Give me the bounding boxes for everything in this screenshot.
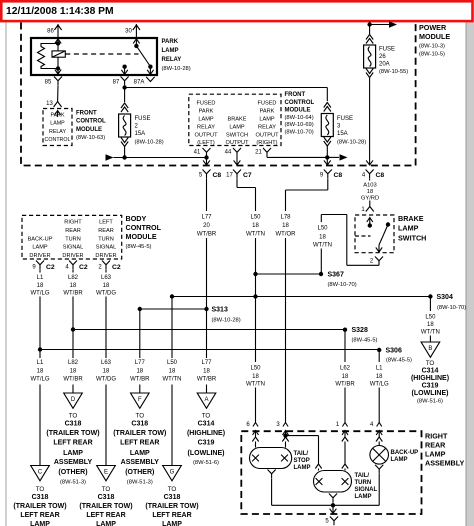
backup lamp ground exit [375, 465, 383, 473]
svg-text:S313: S313 [212, 306, 228, 313]
lamp pin 4 [377, 423, 382, 427]
svg-text:L62: L62 [340, 365, 351, 371]
right rear lamp assembly box [241, 431, 421, 514]
wire A103 from C8 pin4 [369, 178, 371, 180]
svg-text:LEFT REAR: LEFT REAR [120, 439, 159, 446]
svg-text:FUSE: FUSE [337, 116, 353, 122]
ground rail [272, 504, 380, 506]
node J3 pin41 junction [204, 155, 208, 159]
svg-text:15A: 15A [337, 131, 348, 137]
svg-text:C318: C318 [32, 494, 49, 501]
wire L63 down [105, 297, 107, 359]
node ground rail [331, 503, 335, 507]
wire L62 from S328 [344, 330, 346, 362]
svg-text:TURN: TURN [65, 236, 81, 242]
wire L77 down to S313 [206, 238, 208, 309]
lamp pin 5 connector [330, 517, 338, 526]
svg-text:LEFT REAR: LEFT REAR [53, 439, 92, 446]
svg-text:C318: C318 [131, 421, 148, 428]
svg-text:WT/TN: WT/TN [421, 329, 440, 335]
node battery feed [367, 22, 371, 26]
node S306 [377, 348, 381, 352]
svg-text:18: 18 [376, 374, 383, 380]
svg-text:C319: C319 [198, 439, 215, 446]
svg-text:(HIGHLINE): (HIGHLINE) [187, 430, 225, 437]
svg-text:WT/BR: WT/BR [130, 377, 150, 383]
node lamp pin3 junction [283, 433, 287, 437]
svg-text:(8W-51-3): (8W-51-3) [127, 480, 153, 486]
wire A103 to brake switch [369, 201, 371, 207]
svg-text:S304: S304 [437, 294, 453, 301]
svg-text:C7: C7 [243, 172, 252, 179]
svg-text:WT/OR: WT/OR [276, 231, 297, 237]
svg-text:L1: L1 [37, 360, 44, 366]
wire L63 from pin 2 [105, 269, 107, 272]
svg-text:LAMP: LAMP [425, 450, 446, 459]
svg-text:(TRAILER TOW): (TRAILER TOW) [113, 430, 166, 437]
svg-text:85: 85 [45, 80, 52, 86]
pin 86 entry arrow [55, 39, 61, 44]
svg-text:LEFT REAR: LEFT REAR [152, 512, 191, 519]
fuse F3 [324, 103, 331, 108]
svg-text:WT/LG: WT/LG [370, 381, 389, 387]
svg-text:30: 30 [125, 29, 132, 35]
lamp pin 6 [253, 423, 258, 427]
wire fuse2 output [124, 147, 126, 158]
svg-text:BACK-UP: BACK-UP [391, 450, 419, 456]
svg-text:SWITCH: SWITCH [226, 132, 248, 138]
svg-text:S367: S367 [328, 272, 344, 279]
svg-text:SIGNAL: SIGNAL [63, 245, 84, 251]
pin 30 wire top [135, 24, 137, 46]
svg-text:RELAY: RELAY [197, 124, 215, 130]
svg-text:(8W-10-28): (8W-10-28) [212, 317, 241, 323]
svg-text:C318: C318 [65, 421, 82, 428]
svg-text:17: 17 [226, 173, 233, 179]
node S313 [204, 307, 208, 311]
svg-text:(TRAILER TOW): (TRAILER TOW) [79, 503, 132, 510]
svg-text:REAR: REAR [98, 228, 114, 234]
svg-text:LAMP: LAMP [96, 521, 116, 526]
svg-text:D: D [71, 397, 76, 403]
svg-text:REAR: REAR [65, 228, 81, 234]
svg-text:(8W-10-64): (8W-10-64) [285, 115, 314, 121]
svg-text:RELAY: RELAY [258, 124, 276, 130]
svg-text:WT/TN: WT/TN [163, 377, 182, 383]
svg-text:C318: C318 [164, 494, 181, 501]
node S304 [428, 294, 432, 298]
back-up lamp [370, 446, 389, 465]
pin 87 connector [121, 77, 129, 86]
body control module box [22, 215, 122, 259]
wire S304 stub down [429, 297, 431, 312]
svg-text:(LOWLINE): (LOWLINE) [188, 450, 225, 457]
wire pin21 to fuse3 node [266, 156, 268, 159]
pin 13 connector [54, 102, 62, 108]
wire pin3 branch to turn lamp [286, 435, 319, 437]
svg-text:(8W-10-55): (8W-10-55) [379, 69, 408, 75]
svg-text:C314: C314 [422, 367, 439, 374]
svg-text:L77: L77 [201, 214, 212, 220]
svg-text:WT/TN: WT/TN [246, 381, 265, 387]
wire pin44 down [236, 157, 238, 165]
svg-text:WT/TN: WT/TN [313, 242, 332, 248]
node relay coil top [56, 41, 60, 45]
wire to lamp pin 5 [332, 505, 334, 513]
svg-text:18: 18 [252, 374, 259, 380]
svg-text:18: 18 [103, 283, 110, 289]
triangle connector A [197, 393, 216, 408]
svg-text:(TRAILER TOW): (TRAILER TOW) [46, 430, 99, 437]
wire pin4 to backup lamp [378, 442, 380, 446]
wire L62 to lamp pin 1 [344, 388, 346, 423]
svg-text:LAMP: LAMP [259, 116, 275, 122]
svg-text:LAMP: LAMP [398, 224, 419, 233]
svg-text:18: 18 [282, 223, 289, 229]
wire L50 from C7 pin17 [236, 178, 238, 187]
wire to triangle B [429, 336, 431, 343]
svg-text:TO: TO [136, 412, 145, 419]
wire 87 to junction [124, 85, 126, 87]
svg-text:18: 18 [37, 283, 44, 289]
svg-text:18: 18 [103, 368, 110, 374]
svg-text:C8: C8 [213, 172, 222, 179]
svg-text:SIGNAL: SIGNAL [96, 245, 117, 251]
wire L78 from C8 pin9 [327, 178, 329, 190]
svg-text:BRAKE: BRAKE [398, 214, 424, 223]
wire L78 down to lamp pin 3 [285, 238, 287, 423]
svg-text:20: 20 [203, 223, 210, 229]
svg-text:CONTROL: CONTROL [285, 100, 315, 106]
svg-text:TAIL/: TAIL/ [294, 451, 309, 457]
brake switch arm [379, 225, 388, 246]
svg-text:(8W-10-63): (8W-10-63) [76, 135, 105, 141]
node J1 fuse2/fuse3 feed [122, 85, 126, 89]
fuse F2 [121, 103, 128, 108]
svg-text:WT/DG: WT/DG [96, 377, 116, 383]
svg-text:WT/BR: WT/BR [63, 377, 83, 383]
svg-text:LEFT REAR: LEFT REAR [20, 512, 59, 519]
svg-text:LAMP: LAMP [355, 494, 372, 500]
lamp pin 3 [283, 423, 288, 427]
wire L77 branch to triangle F [139, 385, 141, 394]
front control module connector box (park lamp relay control) [43, 109, 72, 146]
wire L77 branch from S313 [139, 309, 141, 358]
wire fuse3 continuation arrow [327, 156, 339, 158]
pin 41 connector [203, 148, 211, 157]
relay coil dashed actuator link [65, 53, 138, 55]
svg-text:PARK: PARK [260, 108, 275, 114]
svg-text:LAMP: LAMP [162, 48, 179, 54]
svg-text:(8W-10-69): (8W-10-69) [285, 122, 314, 128]
node on L50 at S304 line [253, 294, 257, 298]
svg-text:MODULE: MODULE [126, 232, 157, 241]
wire L1 from S306 [378, 350, 380, 362]
svg-text:SWITCH: SWITCH [398, 234, 426, 243]
svg-text:(LOWLINE): (LOWLINE) [412, 390, 449, 397]
wire pin3 to stop lamp [285, 442, 287, 448]
svg-text:FUSE: FUSE [135, 116, 151, 122]
svg-text:15A: 15A [135, 131, 146, 137]
svg-text:18: 18 [427, 322, 434, 328]
svg-text:L1: L1 [37, 275, 44, 281]
svg-text:(8W-51-3): (8W-51-3) [60, 480, 86, 486]
svg-text:(8W-45-5): (8W-45-5) [386, 357, 412, 363]
svg-text:(TRAILER TOW): (TRAILER TOW) [13, 503, 66, 510]
bcm pin 2 connector C2 [102, 261, 110, 270]
svg-text:DRIVER: DRIVER [29, 253, 50, 259]
svg-text:FRONT: FRONT [285, 92, 306, 98]
wire brake L50 to S367 [320, 249, 322, 275]
svg-text:(8W-10-3): (8W-10-3) [419, 44, 445, 50]
wire from S304 row down (L50 to G) [171, 297, 173, 359]
stop lamp ground exit [268, 470, 276, 479]
svg-text:18: 18 [342, 374, 349, 380]
svg-text:(8W-10-28): (8W-10-28) [135, 140, 164, 146]
svg-text:WT/LG: WT/LG [31, 291, 50, 297]
svg-text:S328: S328 [352, 327, 368, 334]
node J4 fuse3 output [325, 155, 329, 159]
triangle connector F [131, 393, 150, 408]
svg-text:LAMP: LAMP [32, 245, 48, 251]
svg-text:L77: L77 [201, 360, 212, 366]
svg-text:C2: C2 [112, 264, 121, 271]
svg-text:C318: C318 [98, 494, 115, 501]
svg-text:WT/TN: WT/TN [246, 231, 265, 237]
node brake switch input [368, 223, 372, 227]
svg-text:TO: TO [69, 412, 78, 419]
wire fuse3 output down [326, 146, 328, 165]
svg-text:C8: C8 [376, 172, 385, 179]
svg-text:LAMP: LAMP [294, 465, 311, 471]
svg-text:WT/BR: WT/BR [63, 291, 83, 297]
svg-text:WT/BR: WT/BR [335, 381, 355, 387]
svg-text:18: 18 [70, 368, 77, 374]
lamp pin 1 [342, 423, 347, 427]
tail/turn signal lamp [314, 471, 352, 493]
wire battery feed arrow [370, 24, 389, 26]
splice row to S304 [172, 296, 430, 298]
node S328 [343, 328, 347, 332]
wire L82 from pin 4 [72, 269, 74, 272]
svg-text:ASSEMBLY: ASSEMBLY [425, 459, 464, 468]
wire L77 below S313 [206, 309, 208, 358]
svg-text:SIGNAL: SIGNAL [355, 487, 378, 493]
svg-text:LAMP: LAMP [391, 457, 408, 463]
svg-text:(8W-10-70): (8W-10-70) [328, 282, 357, 288]
svg-text:FRONT: FRONT [76, 110, 97, 116]
wire L1 from pin 9 [39, 269, 41, 272]
node relay coil bottom [56, 66, 60, 70]
wire L50 to lamp pin 6 [255, 388, 257, 423]
pin 87A exit arrow [149, 67, 151, 75]
relay K1 park lamp relay box [31, 38, 157, 75]
wire L77 to triangle A [206, 385, 208, 394]
wire pin1 to turn lamp [344, 442, 346, 465]
wire L50 down [255, 238, 257, 362]
wire L82 to triangle D [72, 385, 74, 394]
svg-text:L1: L1 [376, 365, 383, 371]
svg-text:18: 18 [252, 223, 259, 229]
pin 44 connector [233, 148, 241, 157]
node brake switch contact [386, 222, 390, 226]
svg-text:L78: L78 [280, 214, 291, 220]
svg-text:FUSE: FUSE [379, 47, 395, 53]
pin 87 exit arrow [124, 67, 126, 75]
svg-text:C8: C8 [334, 172, 343, 179]
svg-text:L50: L50 [317, 225, 328, 231]
wire left feed with arrow [106, 154, 114, 160]
svg-text:TURN: TURN [355, 480, 372, 486]
triangle connector G [163, 466, 182, 481]
svg-text:(RIGHT): (RIGHT) [256, 140, 277, 146]
svg-text:(8W-10-70): (8W-10-70) [285, 130, 314, 136]
svg-text:86: 86 [47, 29, 54, 35]
svg-text:MODULE: MODULE [419, 32, 450, 41]
svg-text:87A: 87A [134, 80, 145, 86]
wire L1 to lamp pin 4 [378, 388, 380, 423]
svg-text:18: 18 [70, 283, 77, 289]
svg-text:L77: L77 [135, 360, 146, 366]
svg-text:WT/DG: WT/DG [96, 291, 116, 297]
svg-text:S306: S306 [386, 348, 402, 355]
svg-text:CONTROL: CONTROL [45, 137, 71, 143]
svg-text:L50: L50 [250, 365, 261, 371]
svg-text:87: 87 [113, 80, 120, 86]
svg-text:(8W-10-28): (8W-10-28) [337, 140, 366, 146]
svg-text:13: 13 [46, 101, 53, 107]
svg-text:BRAKE: BRAKE [228, 116, 247, 122]
svg-text:WT/LG: WT/LG [31, 377, 50, 383]
svg-text:B: B [428, 346, 432, 352]
svg-text:21: 21 [255, 150, 262, 156]
wire L1 to triangle C [39, 385, 41, 466]
svg-text:MODULE: MODULE [76, 127, 102, 133]
svg-text:LAMP: LAMP [229, 124, 245, 130]
svg-text:(8W-51-6): (8W-51-6) [417, 399, 443, 405]
svg-text:LAMP: LAMP [30, 521, 50, 526]
svg-text:STOP: STOP [294, 458, 310, 464]
svg-text:PARK: PARK [162, 39, 179, 45]
splice row to S367 [256, 273, 322, 275]
svg-text:PARK: PARK [199, 108, 214, 114]
node relay common [134, 44, 138, 48]
svg-text:18: 18 [136, 368, 143, 374]
connector C8 pin 5 [203, 170, 211, 179]
wire pin6 to stop lamp [255, 442, 257, 448]
wire brake switch output path [378, 264, 380, 266]
svg-text:A103: A103 [363, 182, 377, 188]
svg-text:LAMP: LAMP [63, 450, 83, 457]
triangle connector C [31, 466, 50, 481]
svg-text:CONTROL: CONTROL [126, 223, 162, 232]
svg-text:L82: L82 [68, 275, 79, 281]
svg-text:(OTHER): (OTHER) [58, 469, 87, 476]
tail/stop lamp [250, 448, 292, 469]
wire L1 down [39, 297, 41, 359]
svg-text:PARK: PARK [50, 112, 64, 118]
relay switch arm [136, 46, 150, 67]
node J2 on fuse2 line [122, 155, 126, 159]
svg-text:LAMP: LAMP [50, 121, 65, 127]
node relay contact 87A [148, 65, 152, 69]
triangle connector B [421, 342, 440, 357]
triangle connector E [97, 466, 116, 481]
svg-text:BACK-UP: BACK-UP [28, 236, 53, 242]
svg-text:18: 18 [169, 368, 176, 374]
connector C8 pin 9 [324, 170, 332, 179]
svg-text:RIGHT: RIGHT [64, 220, 82, 226]
node S367 [319, 272, 323, 276]
right scrollbar gray strip [466, 22, 474, 526]
svg-text:GY/RD: GY/RD [361, 195, 379, 201]
pin 85 connector [54, 77, 62, 86]
svg-text:L63: L63 [101, 360, 112, 366]
relay coil resistor [38, 44, 59, 69]
svg-text:TO: TO [36, 486, 45, 493]
svg-text:(8W-10-28): (8W-10-28) [162, 66, 191, 72]
svg-text:TO: TO [202, 412, 211, 419]
wire J1 down to fuse 2 [124, 88, 126, 103]
pin 13 entry arrow [55, 111, 61, 118]
svg-text:L50: L50 [167, 360, 178, 366]
connector C7 pin 17 [233, 170, 241, 179]
wire pin41 down [206, 157, 208, 165]
bcm pin 4 connector C2 [69, 261, 77, 270]
node on L50 at S367 line [253, 272, 257, 276]
svg-text:WT/BR: WT/BR [197, 377, 217, 383]
wire feed to fuse 3 (horizontal) [125, 87, 328, 89]
svg-text:(LEFT): (LEFT) [197, 140, 215, 146]
left window border line [5, 22, 7, 526]
svg-text:BODY: BODY [126, 214, 147, 223]
svg-text:18: 18 [319, 234, 326, 240]
svg-text:POWER: POWER [419, 23, 447, 32]
svg-text:F: F [138, 397, 142, 403]
svg-text:(TRAILER TOW): (TRAILER TOW) [145, 503, 198, 510]
power module boundary (dashed box) [21, 23, 416, 166]
pin 21 connector [263, 148, 271, 157]
svg-text:(8W-10-5): (8W-10-5) [419, 52, 445, 58]
brake lamp switch box [355, 215, 394, 253]
turn lamp ground exit [329, 494, 337, 503]
svg-text:OUTPUT: OUTPUT [226, 140, 250, 146]
wire L82 down [72, 297, 74, 359]
pin 86 wire top [57, 24, 59, 44]
svg-text:DRIVER: DRIVER [95, 253, 116, 259]
svg-text:20A: 20A [379, 62, 390, 68]
svg-text:TO: TO [426, 360, 435, 367]
wire L63 to triangle E [105, 385, 107, 466]
svg-text:DRIVER: DRIVER [62, 253, 83, 259]
svg-text:LAMP: LAMP [130, 450, 150, 457]
svg-text:(HIGHLINE): (HIGHLINE) [411, 375, 449, 382]
svg-text:REAR: REAR [425, 441, 446, 450]
svg-text:L63: L63 [101, 275, 112, 281]
header timestamp bar [1, 1, 472, 21]
svg-text:CONTROL: CONTROL [76, 119, 106, 125]
brake switch output arrow [378, 245, 380, 252]
connector C8 pin 4 [366, 170, 374, 179]
wire to fuse 26 [369, 22, 371, 35]
svg-text:18: 18 [37, 368, 44, 374]
svg-text:LEFT: LEFT [99, 220, 113, 226]
svg-text:C: C [38, 470, 43, 476]
splice row to S306 [40, 349, 379, 351]
pin 85 exit [57, 69, 59, 76]
svg-text:WT/BR: WT/BR [197, 231, 217, 237]
svg-text:12/11/2008 1:14:38 PM: 12/11/2008 1:14:38 PM [6, 6, 114, 17]
